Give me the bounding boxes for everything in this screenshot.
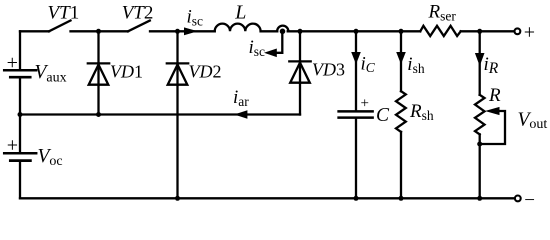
node C bottom junction: [354, 196, 359, 201]
wire VT2 contact to inductor: [150, 30, 215, 32]
svg-text:Rser: Rser: [428, 1, 457, 23]
wire middle rail (i_ar net): [20, 113, 300, 115]
switch VT2: [128, 21, 150, 32]
wire hop arc over i_sc tap: [277, 26, 288, 32]
switch VT1: [49, 21, 71, 32]
svg-text:iC: iC: [361, 54, 376, 76]
wire R bottom to rail: [479, 134, 481, 198]
wire VD2 column upper: [176, 31, 178, 63]
node R_sh bottom junction: [399, 196, 404, 201]
battery V_aux: [4, 70, 36, 77]
battery V_oc: [4, 153, 36, 160]
wire R_sh column upper: [400, 31, 402, 91]
wire inductor to hop: [261, 30, 278, 32]
svg-text:VD2: VD2: [189, 62, 222, 82]
svg-text:isc: isc: [187, 6, 204, 28]
svg-text:Rsh: Rsh: [409, 101, 434, 123]
node R_sh top junction: [399, 29, 404, 34]
svg-text:Voc: Voc: [38, 146, 63, 169]
svg-text:iar: iar: [233, 87, 249, 109]
svg-text:isc: isc: [249, 37, 266, 59]
svg-text:VT1: VT1: [48, 3, 80, 24]
wire VD1 column upper: [97, 31, 99, 63]
node R bottom junction: [477, 196, 482, 201]
svg-text:R: R: [488, 85, 501, 106]
node R top junction: [477, 29, 482, 34]
inductor L: [215, 24, 261, 32]
capacitor C: [339, 111, 373, 117]
svg-text:VD1: VD1: [110, 62, 143, 82]
wire R column upper: [479, 31, 481, 95]
resistor R_ser: [420, 26, 460, 36]
terminal + (output positive): [515, 28, 521, 34]
wire bottom rail: [20, 197, 514, 199]
diode VD1: [88, 63, 109, 84]
wire C column upper: [355, 31, 357, 110]
svg-text:+: +: [7, 52, 18, 74]
svg-text:+: +: [524, 21, 535, 43]
svg-text:Vout: Vout: [518, 110, 548, 133]
wire rheostat wiper tap: [480, 111, 505, 144]
current arrow i_R: [475, 53, 485, 66]
svg-text:C: C: [376, 105, 390, 126]
resistor R (rheostat): [475, 95, 485, 135]
node VD2 bottom junction: [175, 196, 180, 201]
wire VD2 anode down to bottom rail (crosses middle rail, no junction): [176, 85, 178, 199]
resistor R_sh: [396, 91, 406, 132]
current arrow i_C: [351, 52, 361, 64]
current arrow i_sc (hook arrowhead): [264, 49, 277, 58]
current arrow i_sh: [396, 52, 406, 64]
wire V_aux to middle node: [19, 79, 21, 115]
svg-text:Vaux: Vaux: [35, 62, 67, 86]
wire left column upper (to V_aux): [19, 31, 21, 69]
svg-text:iR: iR: [484, 54, 499, 77]
svg-text:+: +: [7, 135, 18, 157]
terminal - (output negative): [515, 196, 521, 202]
wire R_sh to bottom rail: [400, 132, 402, 198]
current arrow i_sc (top, on wire): [184, 27, 198, 35]
wire VT1 contact to VD1 node: [71, 30, 129, 32]
node VD1 top junction: [96, 29, 101, 34]
svg-text:VD3: VD3: [312, 60, 345, 80]
svg-text:VT2: VT2: [122, 3, 154, 24]
wire V_oc to bottom rail: [19, 162, 21, 198]
wire C to bottom rail: [355, 119, 357, 199]
wire VD3 anode to middle rail corner: [299, 83, 301, 115]
node VD1 anode junction: [96, 112, 101, 117]
svg-text:−: −: [524, 190, 535, 206]
wire VD3 column upper: [299, 31, 301, 61]
wire VD1 anode to middle rail: [97, 85, 99, 115]
wire hop to R_ser: [288, 30, 421, 32]
node after inductor (i_sc tap): [280, 29, 286, 35]
wire R_ser to + terminal: [461, 30, 514, 32]
svg-text:ish: ish: [407, 54, 425, 76]
node VD2 top junction: [175, 29, 180, 34]
diode VD3: [289, 61, 310, 82]
node VD3 top junction: [298, 29, 303, 34]
svg-text:L: L: [234, 2, 246, 24]
wire middle node to V_oc: [19, 115, 21, 153]
diode VD2: [167, 63, 188, 84]
svg-text:+: +: [361, 96, 369, 112]
node wiper tap junction: [477, 142, 482, 147]
node C top junction: [354, 29, 359, 34]
node battery middle junction: [18, 112, 23, 117]
rheostat wiper arrowhead: [485, 107, 500, 115]
wire i_sc hook from node after inductor: [274, 31, 282, 53]
wire top rail left segment to VT1 pivot: [20, 30, 49, 32]
current arrow i_ar (pointing left on middle rail): [234, 110, 247, 119]
